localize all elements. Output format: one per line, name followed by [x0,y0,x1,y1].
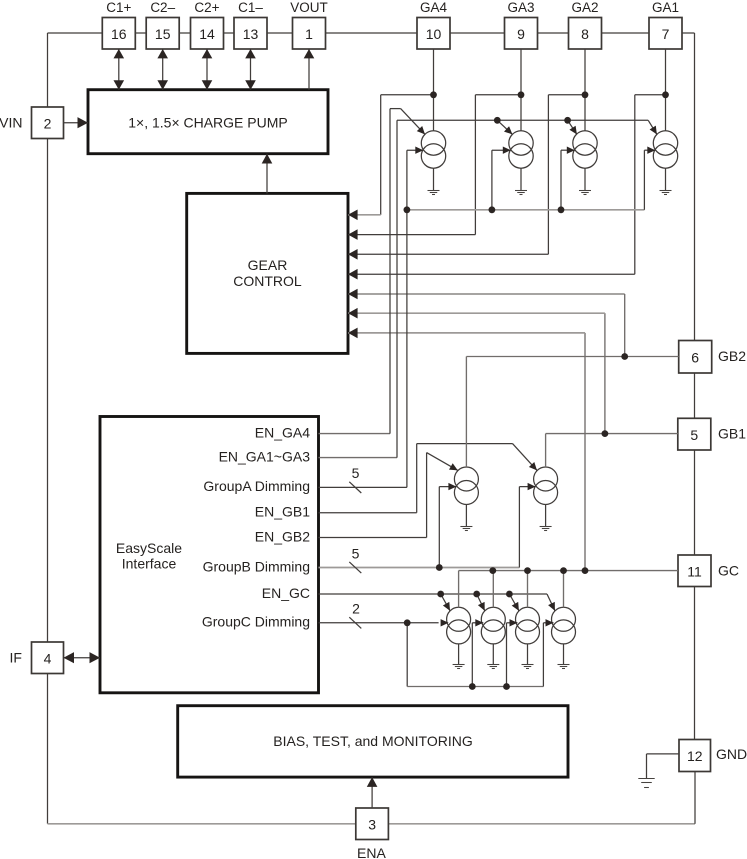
svg-text:CONTROL: CONTROL [233,273,302,289]
svg-text:EN_GB1: EN_GB1 [255,504,310,520]
svg-text:7: 7 [662,26,670,42]
svg-text:5: 5 [690,427,698,443]
svg-text:VIN: VIN [0,115,23,131]
svg-text:GND: GND [716,746,747,762]
svg-text:5: 5 [352,545,360,561]
svg-text:14: 14 [199,26,215,42]
svg-text:13: 13 [243,26,259,42]
svg-text:GC: GC [718,562,739,578]
svg-text:15: 15 [155,26,171,42]
svg-text:C1+: C1+ [106,0,131,15]
svg-text:12: 12 [687,748,703,764]
svg-text:GA1: GA1 [652,0,679,15]
svg-text:EN_GA1~GA3: EN_GA1~GA3 [219,448,311,464]
svg-text:Interface: Interface [122,555,177,571]
svg-text:10: 10 [426,26,442,42]
svg-text:GB2: GB2 [718,348,746,364]
svg-text:6: 6 [691,349,699,365]
svg-text:GroupB Dimming: GroupB Dimming [203,558,310,574]
svg-text:1: 1 [305,26,313,42]
svg-text:IF: IF [10,649,22,665]
svg-text:C2+: C2+ [194,0,219,15]
svg-text:GEAR: GEAR [248,257,288,273]
svg-text:GroupC Dimming: GroupC Dimming [202,614,310,630]
svg-text:2: 2 [352,601,360,617]
svg-text:2: 2 [44,115,52,131]
svg-text:3: 3 [368,816,376,832]
svg-text:EasyScale: EasyScale [116,540,182,556]
svg-text:1×, 1.5× CHARGE PUMP: 1×, 1.5× CHARGE PUMP [128,115,288,131]
svg-text:11: 11 [687,563,702,579]
svg-text:16: 16 [111,26,127,42]
svg-text:ENA: ENA [357,845,386,859]
svg-text:4: 4 [44,650,52,666]
svg-text:GA3: GA3 [507,0,534,15]
svg-text:GA4: GA4 [420,0,448,15]
svg-text:GroupA Dimming: GroupA Dimming [203,478,310,494]
svg-text:VOUT: VOUT [290,0,328,15]
svg-text:C1–: C1– [238,0,263,15]
svg-text:5: 5 [352,465,360,481]
svg-text:BIAS, TEST, and MONITORING: BIAS, TEST, and MONITORING [273,733,472,749]
svg-text:C2–: C2– [150,0,175,15]
svg-text:EN_GC: EN_GC [262,585,310,601]
svg-text:9: 9 [517,26,525,42]
svg-text:8: 8 [581,26,589,42]
svg-text:GA2: GA2 [571,0,598,15]
svg-text:EN_GA4: EN_GA4 [255,424,310,440]
svg-text:GB1: GB1 [718,426,746,442]
svg-text:EN_GB2: EN_GB2 [255,528,310,544]
